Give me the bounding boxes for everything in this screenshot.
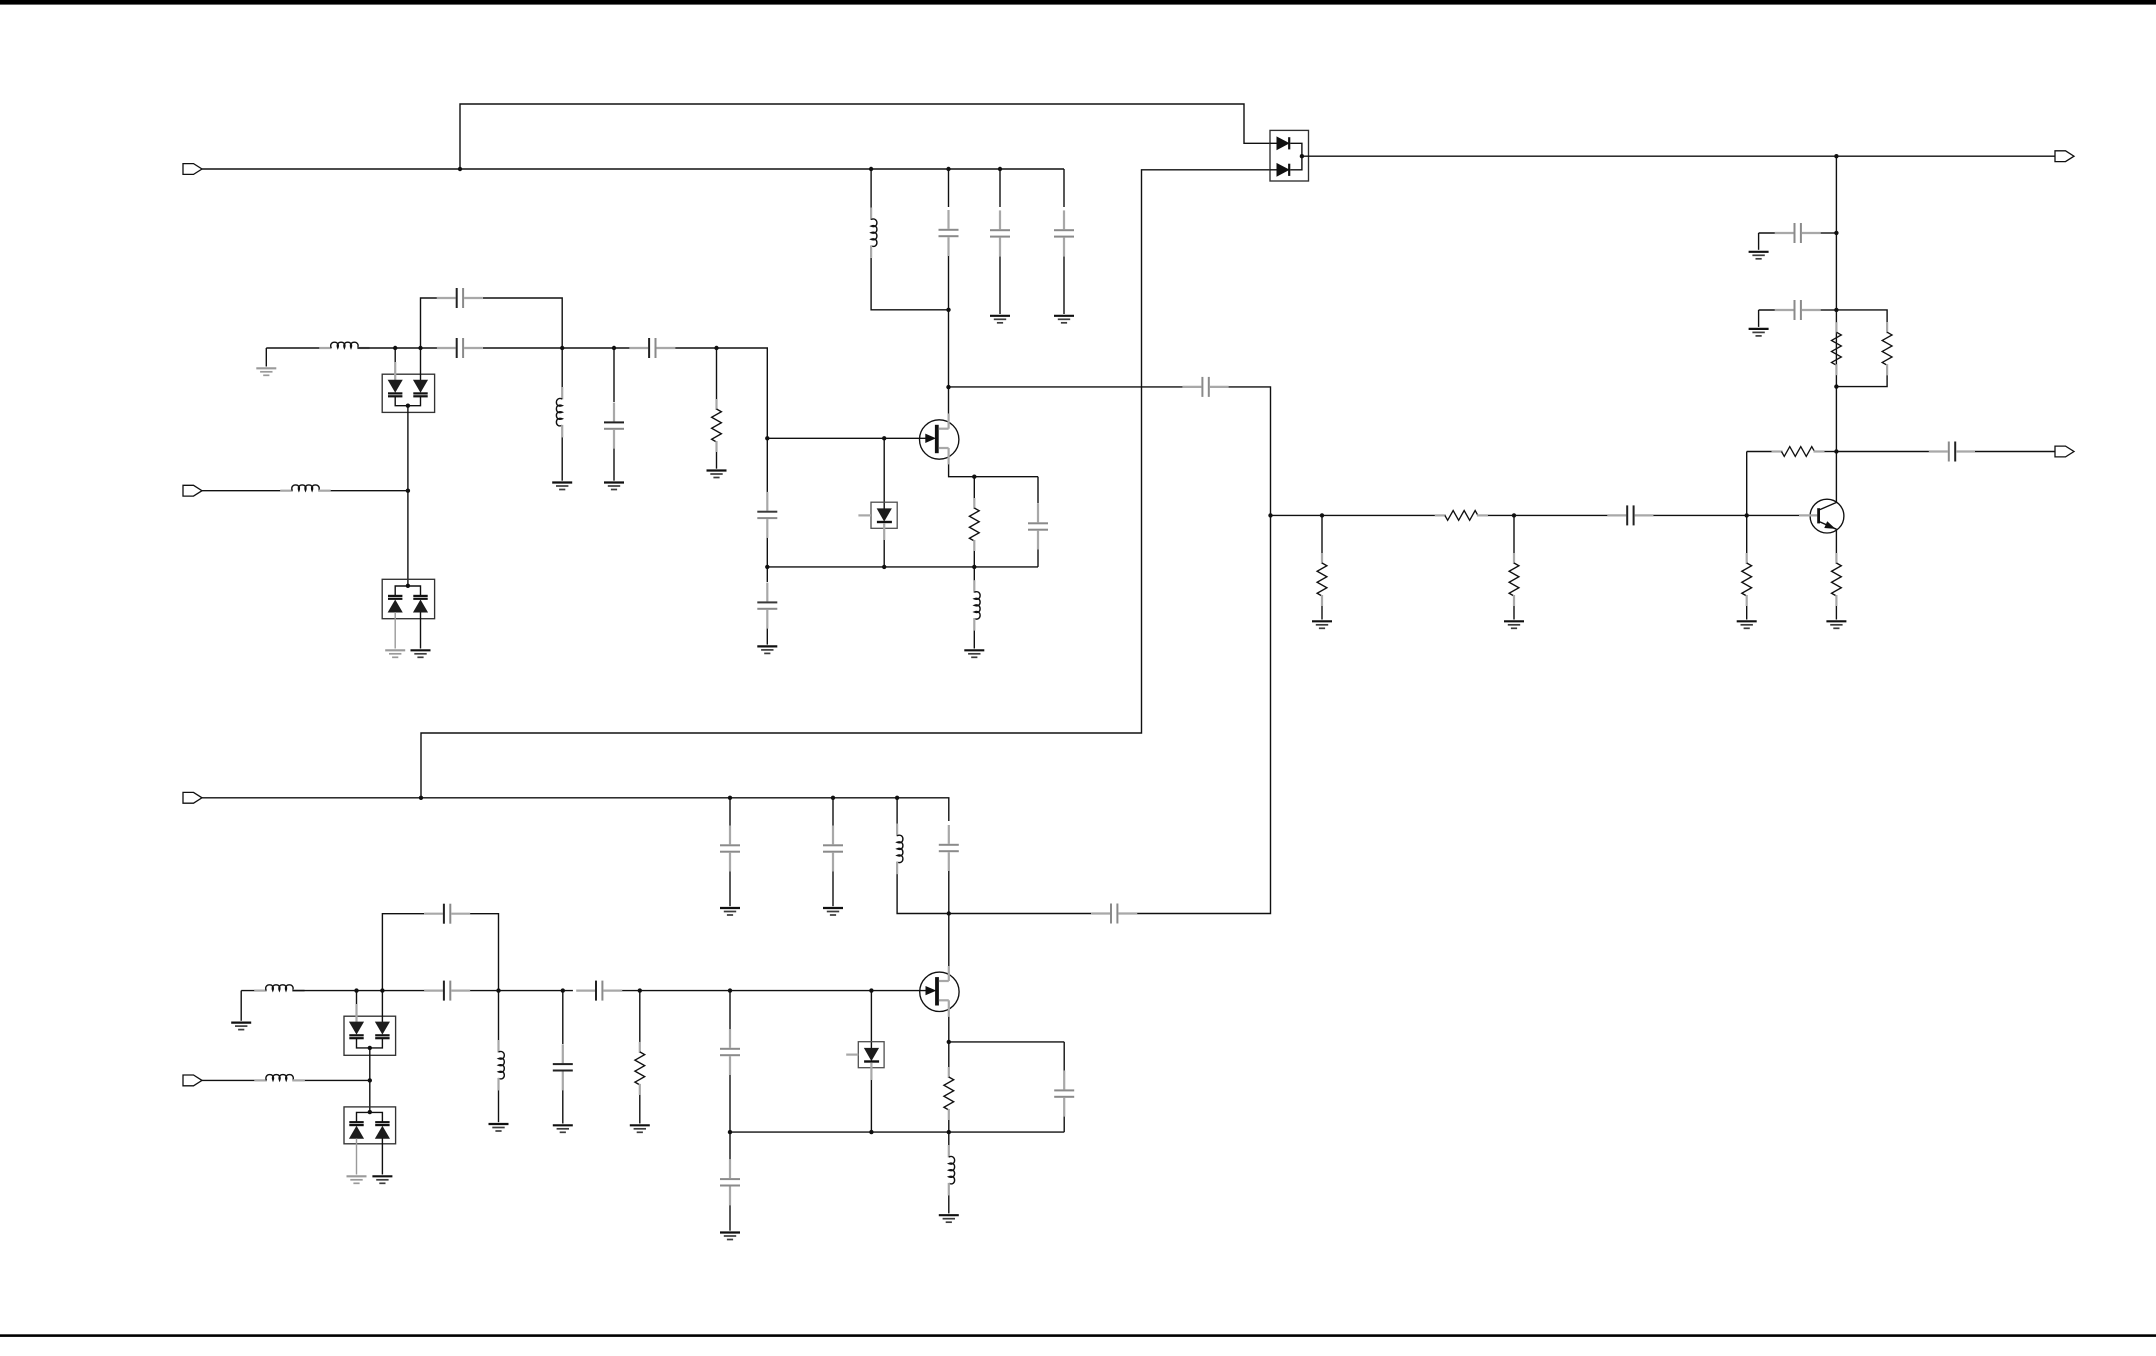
- wire LO feed vertical x=1141: [421, 170, 1270, 798]
- wire R11 stub: [639, 991, 641, 1042]
- capacitor C2: [999, 210, 1001, 229]
- wire C22 to bus: [1063, 1117, 1065, 1133]
- junction P4 node: [368, 1078, 372, 1082]
- port P2 (RF input 2): [183, 485, 202, 496]
- wire R8 to ground: [1746, 606, 1748, 620]
- wire line3 b: [470, 990, 573, 992]
- ground G24: [939, 1214, 959, 1216]
- wire VD6 anode lead: [381, 991, 383, 1023]
- wire P4 run: [202, 1079, 254, 1081]
- diode U1.D9 (top): [1270, 142, 1277, 144]
- capacitor C17 (series): [424, 989, 443, 991]
- junction combiner node: [1268, 513, 1272, 517]
- ground G10: [964, 649, 984, 651]
- diode U1.D10 (bottom): [1270, 169, 1277, 171]
- wire base feed row: [1271, 514, 1435, 516]
- wire R7 stub: [1513, 515, 1515, 553]
- wire VD5/6 bus: [357, 1039, 383, 1048]
- inductor L1: [870, 208, 872, 221]
- wire R10 stub: [973, 477, 975, 499]
- ground G21: [347, 1175, 367, 1177]
- varactor VD6: [376, 1022, 389, 1034]
- wire U1 output run: [1302, 155, 2055, 157]
- wire L10 stub: [948, 1132, 950, 1145]
- wire C25 to ground: [832, 872, 834, 907]
- diode D8 box: [858, 1042, 884, 1068]
- wire VD3 to ground: [394, 612, 396, 649]
- wire L7 stub: [498, 991, 500, 1040]
- resistor R8: [1746, 553, 1748, 564]
- wire C3 to ground: [1063, 257, 1065, 315]
- junction drain node N3: [946, 385, 950, 389]
- resistor R2 (left of pair): [1835, 322, 1837, 333]
- wire drain link to combiner: [949, 386, 1183, 388]
- wire line2 c: [675, 348, 767, 438]
- capacitor C11 (drain link): [1183, 386, 1202, 388]
- wire R11 to ground: [639, 1095, 641, 1124]
- wire Q1 source: [949, 464, 1038, 476]
- transistor Q1 (FET): [920, 420, 959, 459]
- junction VD7/8 bus: [368, 1110, 372, 1114]
- capacitor C25: [832, 826, 834, 845]
- junction bypass right: [560, 346, 564, 350]
- junction VD bus: [406, 404, 410, 408]
- resistor R6: [1321, 553, 1323, 564]
- junction VD6 anode / bypass: [380, 988, 384, 992]
- wire N4 chain down: [766, 438, 768, 492]
- wire C12 row: [1758, 233, 1760, 250]
- junction P1/riser: [458, 167, 462, 171]
- wire R6 to ground: [1321, 606, 1323, 620]
- junction L1: [869, 167, 873, 171]
- wire D7 anode lead: [883, 438, 885, 509]
- varactor pair VD5/VD6 box: [344, 1016, 396, 1055]
- port P5 (output top): [2055, 151, 2074, 162]
- capacitor C18 (series): [576, 989, 595, 991]
- wire VD bus to P2 node: [407, 406, 409, 491]
- capacitor C23 (drain link): [1091, 912, 1110, 914]
- junction C1: [946, 167, 950, 171]
- wire line2 left: [266, 347, 331, 349]
- wire line2 b: [483, 347, 630, 349]
- junction feedback row: [1834, 449, 1838, 453]
- junction VD2 anode / bypass: [418, 346, 422, 350]
- wire VD bus to P4 node: [369, 1048, 371, 1081]
- wire collector riser: [1835, 156, 1837, 502]
- wire C7 to ground: [613, 449, 615, 481]
- wire C10 to bus: [1037, 550, 1039, 567]
- junction source node: [947, 1040, 951, 1044]
- wire C19 to ground: [562, 1090, 564, 1123]
- ground G3: [604, 481, 624, 483]
- junction VD1 anode: [393, 346, 397, 350]
- junction C2: [998, 167, 1002, 171]
- ground G11: [1749, 251, 1769, 253]
- capacitor C24: [729, 826, 731, 845]
- junction VD3/4 bus: [406, 584, 410, 588]
- junction D8/bus: [869, 1130, 873, 1134]
- junction U1 output: [1300, 154, 1304, 158]
- junction P3/riser: [419, 796, 423, 800]
- wire L1 top stub: [870, 169, 872, 208]
- wire N2 to drain node: [948, 310, 950, 414]
- wire L9 stub: [896, 798, 898, 824]
- junction VD5/6 bus: [368, 1046, 372, 1050]
- diode D7 box: [871, 502, 897, 528]
- junction R pair bottom: [1834, 384, 1838, 388]
- varactor pair VD3/VD4 box: [382, 579, 434, 618]
- ground G5: [990, 315, 1010, 317]
- inductor L8: [254, 1079, 267, 1081]
- diode D7: [878, 509, 892, 521]
- junction C12 row: [1834, 231, 1838, 235]
- wire L10 to ground: [948, 1195, 950, 1213]
- resistor R11 (shunt): [639, 1042, 641, 1053]
- inductor L6: [254, 989, 267, 991]
- inductor L5: [973, 580, 975, 593]
- resistor R5 (base feed): [1435, 514, 1446, 516]
- diode pair U1 box: [1270, 130, 1309, 181]
- capacitor C13: [1775, 309, 1794, 311]
- inductor L3 (shunt): [561, 387, 563, 400]
- wire Q2 drain: [948, 914, 950, 967]
- inductor L7 (shunt): [497, 1040, 499, 1053]
- capacitor C26: [948, 825, 950, 844]
- ground G12: [1749, 328, 1769, 330]
- ground G23: [720, 1231, 740, 1233]
- wire C23 to combiner: [1137, 515, 1270, 913]
- varactor VD8: [376, 1127, 389, 1139]
- wire feedback row: [1746, 452, 1748, 516]
- transistor Q2 (FET): [920, 972, 959, 1011]
- varactor VD2: [414, 380, 427, 392]
- wire line3 c: [622, 990, 926, 992]
- wire C7 stub: [613, 348, 615, 402]
- resistor R1 (shunt): [715, 399, 717, 410]
- wire C11 to combiner riser: [1229, 387, 1271, 516]
- wire R1 stub: [716, 348, 718, 400]
- wire Q2 source: [949, 1017, 1064, 1042]
- wire R6 stub: [1321, 515, 1323, 553]
- diode D8: [865, 1048, 879, 1060]
- resistor R3 (right of pair): [1886, 322, 1888, 333]
- wire VD5 anode lead: [356, 991, 358, 1004]
- wire D8 anode lead: [870, 991, 872, 1049]
- wire feedback bus lower: [730, 1131, 1064, 1133]
- wire bypass branch lower: [382, 914, 424, 991]
- wire VD8 to ground: [381, 1138, 383, 1174]
- wire VD7 to ground: [356, 1138, 358, 1174]
- wire line3 a: [293, 990, 425, 992]
- wire base feed row b: [1488, 514, 1608, 516]
- wire C3 top stub: [1063, 169, 1065, 207]
- varactor VD1: [389, 380, 402, 392]
- junction chain x=730: [728, 988, 732, 992]
- wire R3 branch bottom: [1836, 375, 1887, 386]
- wire C15 to port: [1975, 451, 2055, 453]
- wire P1 net: riser to top run: [460, 104, 1270, 169]
- junction bus730: [728, 1130, 732, 1134]
- junction C24: [728, 796, 732, 800]
- capacitor C10: [1037, 504, 1039, 523]
- junction output/collector riser: [1834, 154, 1838, 158]
- wire L5 to ground: [973, 631, 975, 649]
- ground G22: [372, 1175, 392, 1177]
- wire L1 bottom to node N2: [871, 258, 948, 310]
- resistor R10: [973, 498, 975, 509]
- ground G7: [385, 649, 405, 651]
- ground G19: [553, 1124, 573, 1126]
- junction R10/bus: [972, 565, 976, 569]
- wire C22 riser: [1063, 1042, 1065, 1071]
- wire VD2 anode lead: [420, 348, 422, 380]
- wire R1 to ground: [716, 452, 718, 469]
- wire R4 to riser: [1825, 451, 1837, 453]
- wire R7 to ground: [1513, 606, 1515, 620]
- resistor R12: [948, 1067, 950, 1078]
- wire VD pair bus: [395, 397, 420, 406]
- wire VD3/4 bus: [395, 586, 420, 596]
- wire P2 run b: [331, 490, 408, 492]
- wire drain row to link: [949, 913, 1091, 915]
- transistor Q3 (BJT): [1810, 499, 1844, 533]
- capacitor C12: [1775, 232, 1794, 234]
- diode D8 stub: [846, 1053, 858, 1055]
- ground G15: [1737, 620, 1757, 622]
- resistor R4 (feedback): [1772, 450, 1783, 452]
- wire C1 top stub: [948, 169, 950, 207]
- resistor R7: [1513, 553, 1515, 564]
- varactor VD4: [414, 601, 427, 613]
- junction D7/bus: [882, 565, 886, 569]
- junction drain node N6: [947, 911, 951, 915]
- wire P2 run: [202, 490, 280, 492]
- wire C9 to ground: [766, 629, 768, 645]
- wire R8 stub: [1746, 515, 1748, 553]
- wire bypass branch lower b: [470, 914, 498, 991]
- junction R7 top: [1512, 513, 1516, 517]
- wire C12 to riser: [1821, 232, 1837, 234]
- port P6 (output 2): [2055, 446, 2074, 457]
- wire base feed row c: [1653, 514, 1799, 516]
- wire gate line Q1: [767, 437, 925, 439]
- inductor L4: [280, 490, 293, 492]
- capacitor C1: [947, 210, 949, 229]
- ground G18: [489, 1123, 509, 1125]
- ground G13: [1312, 620, 1332, 622]
- port P4 (RF input 4): [183, 1075, 202, 1086]
- wire VD1 anode lead: [394, 348, 396, 362]
- junction node N2: [946, 308, 950, 312]
- wire C8 to bus: [766, 538, 768, 567]
- junction L3: [612, 346, 616, 350]
- junction L9: [895, 796, 899, 800]
- wire C21 to ground: [729, 1205, 731, 1230]
- varactor VD3: [389, 601, 402, 613]
- capacitor C20: [729, 1029, 731, 1048]
- wire C13 to riser: [1821, 309, 1837, 311]
- wire P2 node to VD3/4 box: [407, 491, 409, 586]
- wire R9 to ground: [1835, 606, 1837, 620]
- wire L3 stub: [561, 348, 563, 387]
- wire L9 to drain row: [897, 874, 949, 913]
- capacitor C6 (series): [629, 347, 648, 349]
- wire output row 2: [1836, 451, 1929, 453]
- ground G8: [411, 649, 431, 651]
- capacitor C7 (shunt): [613, 403, 615, 422]
- wire bus chain down: [766, 567, 768, 582]
- wire VD4 to ground: [420, 612, 422, 649]
- wire P3 net: y=798 main run: [202, 798, 949, 821]
- port P3 (RF input 3): [183, 792, 202, 803]
- wire P4 node to VD7/8 box: [369, 1080, 371, 1112]
- capacitor C5 (series): [437, 347, 456, 349]
- varactor pair VD1/VD2 box: [382, 374, 434, 412]
- wire R3 branch top: [1836, 310, 1887, 322]
- capacitor C3: [1063, 210, 1065, 229]
- wire bypass branch b: [483, 298, 562, 348]
- capacitor C4 (bypass): [437, 297, 456, 299]
- wire R12 bottom: [948, 1120, 950, 1132]
- junction R1: [714, 346, 718, 350]
- junction C19: [561, 988, 565, 992]
- junction C13 row: [1834, 308, 1838, 312]
- capacitor C8: [766, 492, 768, 511]
- junction L7: [496, 988, 500, 992]
- ground G1: [265, 348, 267, 367]
- ground G9: [757, 645, 777, 647]
- wire C24 stub: [729, 798, 731, 826]
- junction D8 anode: [869, 988, 873, 992]
- varactor VD7: [350, 1127, 363, 1139]
- wire C19 stub: [562, 991, 564, 1044]
- wire L7 to ground: [498, 1090, 500, 1122]
- wire P4 run b: [305, 1079, 370, 1081]
- ground G14: [1504, 620, 1524, 622]
- wire R10 bottom: [973, 551, 975, 567]
- wire feedback bus N5: [767, 566, 1038, 568]
- junction R11: [638, 988, 642, 992]
- ground G2: [552, 481, 572, 483]
- wire D8 cathode lead: [870, 1063, 872, 1080]
- junction gate node N4: [765, 436, 769, 440]
- wire C20 to bus: [729, 1075, 731, 1132]
- capacitor C9: [766, 583, 768, 602]
- inductor L2: [319, 347, 332, 349]
- wire C10 riser: [1037, 477, 1039, 504]
- wire C1 bottom to node N2: [948, 256, 950, 310]
- inductor L9: [896, 824, 898, 837]
- ground G20: [630, 1124, 650, 1126]
- wire C26 to drain node: [948, 871, 950, 914]
- wire line3 left: [241, 990, 266, 992]
- wire L3 to ground: [561, 437, 563, 480]
- wire C24 to ground: [729, 872, 731, 907]
- wire C13 row: [1758, 310, 1760, 327]
- wire chain730 mid: [729, 1132, 731, 1159]
- capacitor C19 (shunt): [562, 1044, 564, 1063]
- inductor L10: [948, 1145, 950, 1158]
- junction D7 anode: [882, 436, 886, 440]
- wire R12 stub: [948, 1042, 950, 1068]
- port P1 (RF input 1): [183, 164, 202, 175]
- junction P2 node: [406, 489, 410, 493]
- capacitor C15 (output): [1929, 450, 1948, 452]
- junction base node: [1745, 513, 1749, 517]
- varactor pair VD7/VD8 box: [344, 1107, 396, 1144]
- capacitor C22: [1063, 1071, 1065, 1090]
- junction C25: [831, 796, 835, 800]
- ground G4: [707, 469, 727, 471]
- ground G17: [240, 991, 242, 1021]
- junction R10 top: [972, 475, 976, 479]
- ground G26: [823, 907, 843, 909]
- junction R12/bus: [947, 1130, 951, 1134]
- ground G6: [1054, 315, 1074, 317]
- wire C2 to ground: [999, 257, 1001, 315]
- wire line2 a: [358, 347, 437, 349]
- junction R6 top: [1320, 513, 1324, 517]
- wire bypass branch: [421, 298, 437, 348]
- wire L5 stub: [973, 567, 975, 581]
- capacitor C16 (bypass): [424, 913, 443, 915]
- wire D7 cathode lead: [883, 523, 885, 540]
- ground G25: [720, 907, 740, 909]
- wire chain730 top: [729, 991, 731, 1029]
- wire C25 stub: [832, 798, 834, 826]
- wire P1 net: y=169 main run: [202, 168, 1064, 170]
- wire C2 top stub: [999, 169, 1001, 207]
- diode D7 stub: [858, 514, 871, 516]
- wire VD7/8 bus: [357, 1112, 383, 1122]
- wire Q3 emitter: [1835, 529, 1837, 553]
- junction VD5 anode: [354, 988, 358, 992]
- varactor VD5: [350, 1022, 363, 1034]
- junction bus/chain: [765, 565, 769, 569]
- resistor R9 (emitter): [1835, 553, 1837, 564]
- capacitor C14 (base): [1607, 514, 1626, 516]
- ground G16: [1826, 620, 1846, 622]
- capacitor C21: [729, 1159, 731, 1178]
